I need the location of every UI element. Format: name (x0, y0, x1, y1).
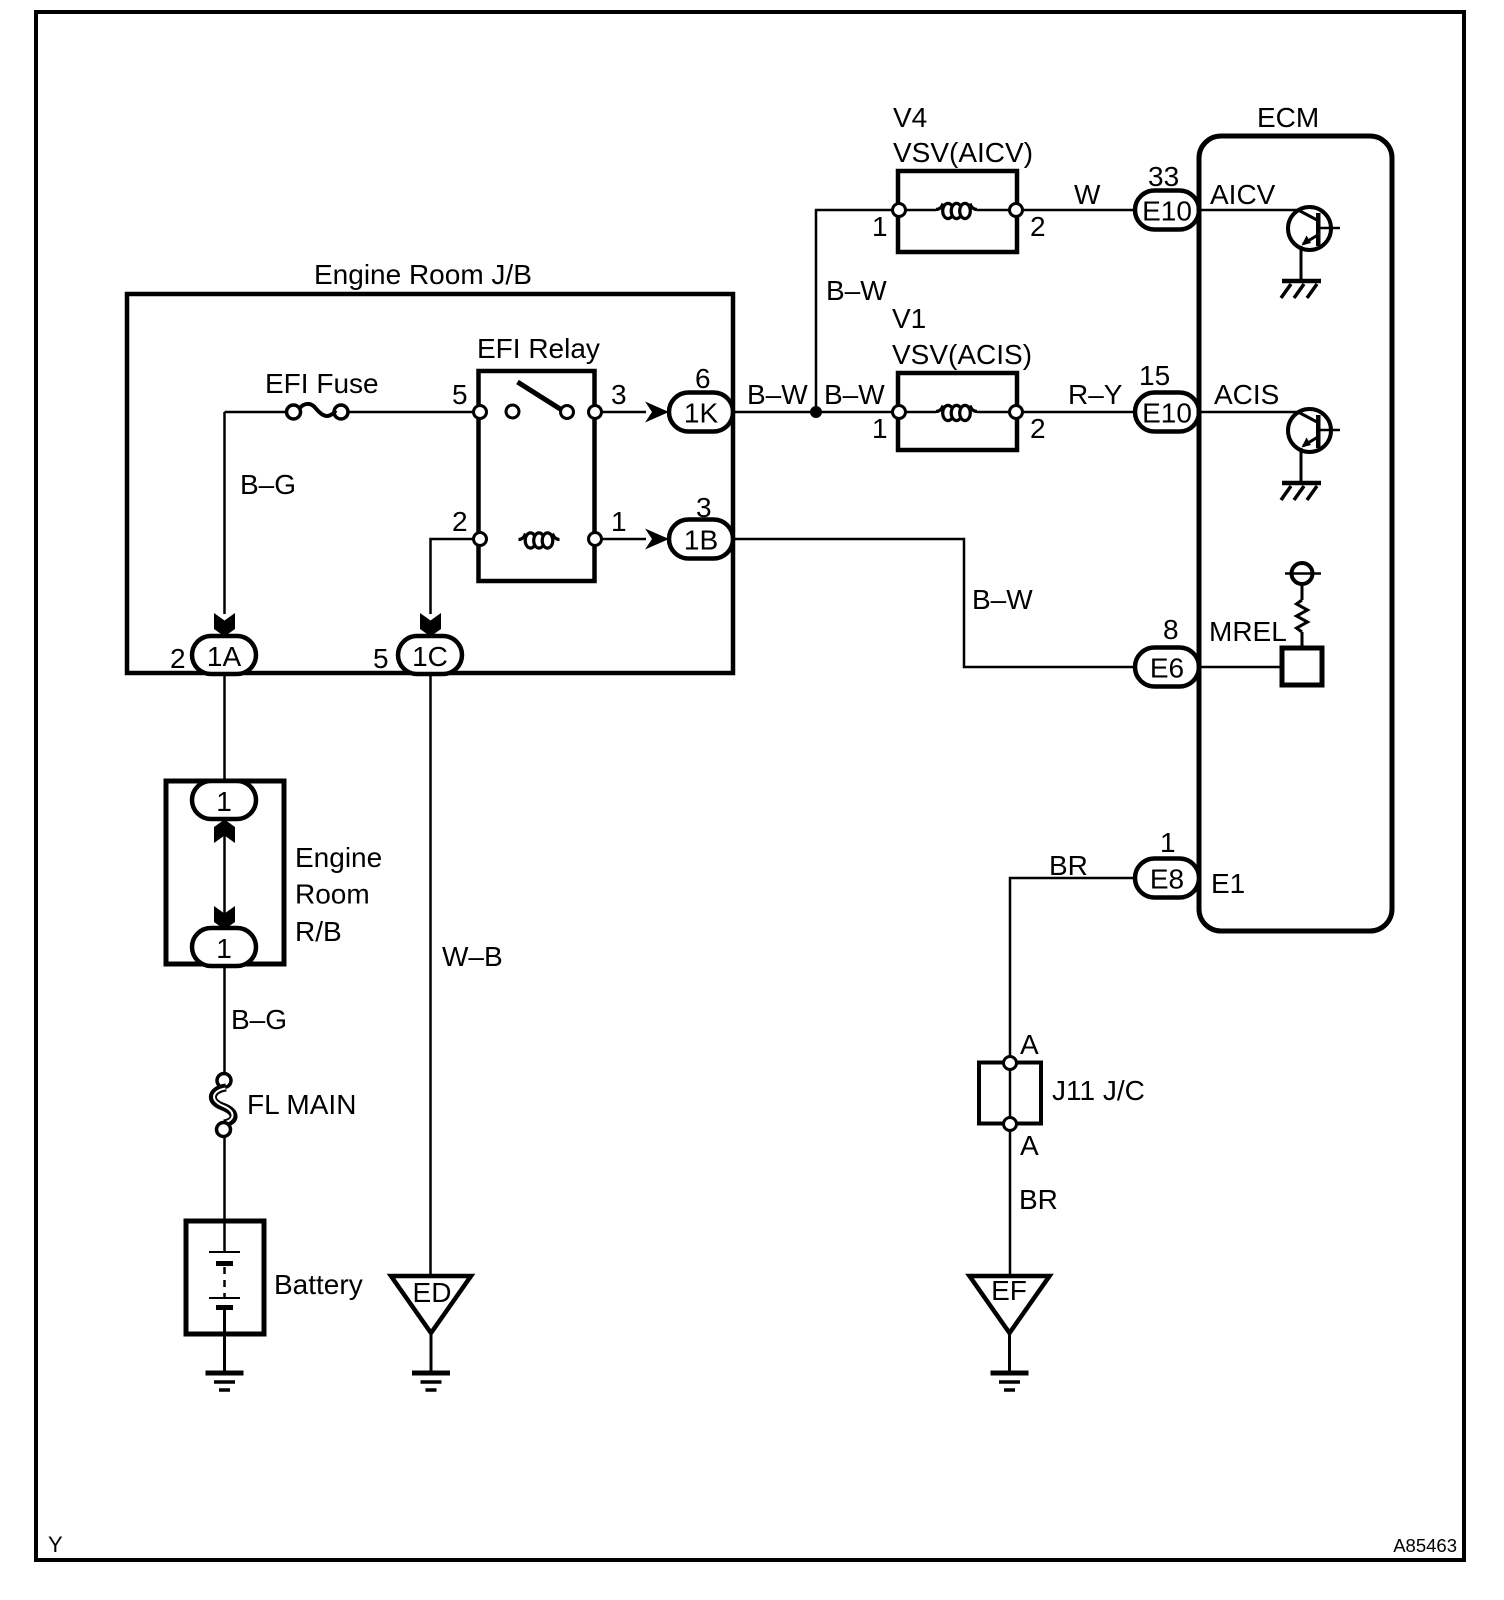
relay EFI Relay (477, 333, 600, 581)
wire E10 to Q1 (1200, 209, 1299, 212)
V1 pin 2 label (1030, 413, 1046, 444)
svg-text:A85463: A85463 (1393, 1535, 1457, 1556)
wire 1C to ED (429, 674, 432, 1276)
ground chassis Q2 (1281, 483, 1321, 500)
pin 3 label (611, 379, 627, 410)
connector E6 (1135, 648, 1199, 687)
svg-text:33: 33 (1148, 161, 1179, 192)
relay coil (474, 533, 602, 549)
connector 1K (669, 393, 733, 432)
svg-text:1C: 1C (412, 641, 448, 672)
pin 5 label of 1C (373, 643, 389, 674)
svg-text:EF: EF (991, 1275, 1027, 1306)
wire to EFI fuse (225, 411, 288, 414)
svg-text:E10: E10 (1142, 196, 1192, 227)
wire 1K to V1 pin1 (733, 411, 893, 414)
svg-text:A: A (1020, 1029, 1039, 1060)
svg-text:W: W (1074, 179, 1101, 210)
pin 3 label above 1B (696, 492, 712, 523)
wire relay pin1 to 1B (602, 538, 647, 541)
wire label W-B (442, 941, 503, 972)
svg-text:Engine: Engine (295, 842, 382, 873)
svg-text:1A: 1A (207, 641, 242, 672)
pin 15 label (1139, 360, 1170, 391)
V4 pin 2 label (1030, 211, 1046, 242)
svg-text:E6: E6 (1150, 653, 1184, 684)
svg-text:J11 J/C: J11 J/C (1052, 1075, 1145, 1106)
wire fuse to relay pin5 (348, 411, 474, 414)
svg-text:2: 2 (1030, 211, 1046, 242)
connector E10 (AICV) (1135, 191, 1199, 230)
ground earth ED (412, 1373, 450, 1390)
ground point EF (970, 1275, 1050, 1373)
connector arrow into 1C (420, 613, 441, 637)
svg-text:3: 3 (611, 379, 627, 410)
wire label B-W right of junction (824, 379, 885, 410)
svg-text:B–W: B–W (972, 584, 1033, 615)
svg-text:E8: E8 (1150, 864, 1184, 895)
svg-text:Battery: Battery (274, 1269, 363, 1300)
transistor Q2 (1288, 409, 1340, 483)
ground earth battery (206, 1373, 244, 1390)
svg-text:1K: 1K (684, 398, 719, 429)
wire between R/B connectors (223, 819, 226, 928)
MREL driver block (1282, 563, 1322, 685)
pin 1 label (611, 506, 627, 537)
node junction (810, 406, 822, 418)
wire label B-G lower (231, 1004, 287, 1035)
pin 8 label (1163, 614, 1179, 645)
wire label R-Y (1068, 379, 1123, 410)
connector E10 (ACIS) (1135, 393, 1199, 432)
svg-text:1: 1 (216, 786, 232, 817)
svg-text:V4: V4 (893, 102, 927, 133)
svg-text:B–W: B–W (824, 379, 885, 410)
node A lower (1020, 1130, 1039, 1161)
pin 33 label (1148, 161, 1179, 192)
wire label B-W (747, 379, 808, 410)
svg-text:B–G: B–G (240, 469, 296, 500)
svg-text:W–B: W–B (442, 941, 503, 972)
connector 1C (398, 636, 462, 674)
svg-text:8: 8 (1163, 614, 1179, 645)
wire relay pin2 down to 1C (431, 539, 475, 614)
ground point ED (391, 1276, 471, 1373)
svg-text:BR: BR (1019, 1184, 1058, 1215)
svg-text:ACIS: ACIS (1214, 379, 1279, 410)
pin 1 label E8 (1160, 827, 1176, 858)
wire R/B to FL MAIN (223, 966, 226, 1074)
wire V4 to E10 (1023, 209, 1136, 212)
svg-text:R/B: R/B (295, 916, 342, 947)
connector 1 lower of R/B (192, 928, 256, 966)
svg-text:VSV(AICV): VSV(AICV) (893, 137, 1033, 168)
wire FL MAIN to battery (223, 1136, 226, 1252)
svg-text:A: A (1020, 1130, 1039, 1161)
svg-text:E1: E1 (1211, 868, 1245, 899)
svg-text:VSV(ACIS): VSV(ACIS) (892, 339, 1032, 370)
wire V1 to E10 (1023, 411, 1136, 414)
wire B+ vertical to 1A (223, 412, 226, 614)
svg-text:2: 2 (452, 506, 468, 537)
connector arrow into 1B (645, 529, 669, 550)
figure number A85463 (1393, 1535, 1457, 1556)
svg-text:R–Y: R–Y (1068, 379, 1123, 410)
svg-text:2: 2 (170, 643, 186, 674)
page letter Y (48, 1532, 63, 1557)
svg-text:1B: 1B (684, 525, 718, 556)
svg-text:MREL: MREL (1209, 616, 1287, 647)
svg-text:1: 1 (872, 413, 888, 444)
wire E6 to MREL driver (1200, 666, 1282, 669)
V1 pin 1 label (872, 413, 888, 444)
svg-text:ED: ED (413, 1277, 452, 1308)
transistor Q1 (1288, 207, 1340, 281)
svg-text:Engine Room J/B: Engine Room J/B (314, 259, 532, 290)
connector arrow into 1K (645, 402, 669, 423)
E1 pin label (1211, 868, 1245, 899)
wire relay pin3 to 1K (602, 411, 647, 414)
wire J11 to EF (1009, 1131, 1012, 1276)
fuse FL MAIN fusible link (213, 1074, 357, 1137)
pin 2 label of 1A (170, 643, 186, 674)
svg-text:15: 15 (1139, 360, 1170, 391)
svg-text:6: 6 (695, 363, 711, 394)
svg-text:5: 5 (373, 643, 389, 674)
wire riser junction to V4 row (816, 210, 893, 412)
Engine Room J/B box (127, 259, 733, 673)
connector 1B (669, 520, 733, 559)
svg-text:AICV: AICV (1210, 179, 1276, 210)
wire label W (1074, 179, 1101, 210)
connector arrow up (214, 820, 235, 844)
svg-text:2: 2 (1030, 413, 1046, 444)
wire label B-W on riser (826, 275, 887, 306)
svg-text:Y: Y (48, 1532, 63, 1557)
pin 2 label (452, 506, 468, 537)
wire 1B to E6 (733, 539, 1135, 667)
wire label B-W lower (972, 584, 1033, 615)
svg-text:1: 1 (611, 506, 627, 537)
svg-text:E10: E10 (1142, 398, 1192, 429)
svg-text:EFI Relay: EFI Relay (477, 333, 600, 364)
connector arrow down (214, 906, 235, 930)
svg-text:5: 5 (452, 379, 468, 410)
svg-text:EFI Fuse: EFI Fuse (265, 368, 379, 399)
svg-text:B–W: B–W (747, 379, 808, 410)
ground chassis Q1 (1281, 281, 1321, 298)
pin 5 label (452, 379, 468, 410)
AICV pin label (1210, 179, 1276, 210)
svg-text:BR: BR (1049, 850, 1088, 881)
ACIS pin label (1214, 379, 1279, 410)
wire label BR upper (1049, 850, 1088, 881)
wire E8 to J11 (1010, 878, 1135, 1057)
connector arrow into 1A (214, 613, 235, 637)
ground earth EF (991, 1373, 1029, 1390)
wire 1A to R/B (223, 674, 226, 782)
connector E8 (1135, 859, 1199, 898)
wire label B-G upper (240, 469, 296, 500)
connector 1 upper of R/B (192, 781, 256, 819)
MREL pin label (1209, 616, 1287, 647)
relay switch contacts (474, 382, 602, 419)
wire E10 to Q2 (1200, 411, 1299, 414)
wire label BR lower (1019, 1184, 1058, 1215)
svg-text:ECM: ECM (1257, 102, 1319, 133)
svg-text:1: 1 (216, 933, 232, 964)
svg-text:1: 1 (1160, 827, 1176, 858)
battery (186, 1221, 363, 1373)
svg-text:B–G: B–G (231, 1004, 287, 1035)
svg-text:V1: V1 (892, 303, 926, 334)
node A upper (1020, 1029, 1039, 1060)
connector 1A (192, 636, 256, 674)
svg-text:FL MAIN: FL MAIN (247, 1089, 356, 1120)
ECM box (1199, 102, 1392, 931)
pin 6 label (695, 363, 711, 394)
fuse EFI Fuse (265, 368, 379, 419)
svg-text:B–W: B–W (826, 275, 887, 306)
relay block Engine Room R/B (166, 781, 382, 964)
svg-text:1: 1 (872, 211, 888, 242)
junction connector J11 J/C (979, 1057, 1145, 1131)
svg-text:Room: Room (295, 879, 370, 910)
solenoid V1 VSV(ACIS) (892, 303, 1032, 450)
solenoid V4 VSV(AICV) (893, 102, 1034, 252)
V4 pin 1 label (872, 211, 888, 242)
